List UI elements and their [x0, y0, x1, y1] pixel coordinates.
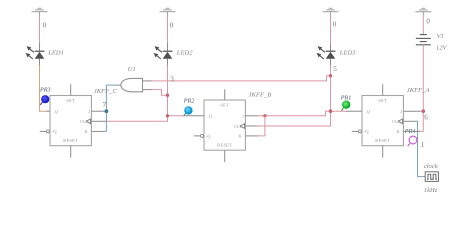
LED2 top pin: [167, 43, 169, 51]
wire net 0 to V1: [422, 14, 424, 35]
wire net 5: junction to Q_A pin: [331, 110, 348, 112]
node net3 junction U1 input: [166, 94, 169, 97]
wire net 7 (U1 out to J,K of JKFF_C): [103, 85, 117, 111]
svg-text:1: 1: [421, 141, 425, 149]
svg-text:CLK: CLK: [392, 119, 402, 124]
wire net 3: U1 bottom input link: [151, 90, 167, 96]
svg-text:V1: V1: [437, 33, 444, 40]
wire net 1: clock to CLK of JKFF_A: [414, 121, 425, 176]
probe PR1: [341, 101, 350, 111]
svg-text:1kHz: 1kHz: [424, 187, 438, 194]
svg-text:JKFF_A: JKFF_A: [407, 87, 431, 94]
svg-text:0: 0: [426, 17, 430, 25]
svg-text:PR1: PR1: [340, 96, 352, 102]
svg-text:RESET: RESET: [63, 138, 78, 143]
probe PR2: [184, 106, 193, 116]
wire net 9 (Q of JKFF_C / PR3): [40, 65, 47, 111]
svg-text:SET: SET: [66, 98, 75, 103]
svg-text:J: J: [400, 109, 402, 114]
probe PR4: [408, 136, 417, 146]
wire net 6: J to K tie at JKFF_A: [419, 111, 423, 131]
node net6 junction: [422, 109, 426, 113]
svg-text:SET: SET: [378, 98, 387, 103]
wire net 5: J to K tie at JKFF_B: [256, 116, 265, 136]
clock source: [425, 172, 438, 182]
svg-text:SET: SET: [220, 103, 229, 108]
svg-text:-Q: -Q: [364, 129, 369, 134]
wire net 0 to LED3: [330, 14, 332, 44]
flip-flop U? JKFF_B: [185, 89, 258, 162]
battery V1: [416, 35, 431, 45]
svg-text:clock: clock: [424, 163, 439, 170]
LED3 top pin: [330, 43, 332, 51]
wire net 6: J_A junction: [419, 110, 423, 112]
ground (net 0) above LED1: [32, 8, 48, 14]
node net5 J/K_B junction: [263, 114, 266, 117]
node net7 junction: [105, 109, 109, 113]
svg-text:5: 5: [333, 65, 337, 73]
svg-text:J: J: [242, 114, 244, 119]
ground (net 0) above LED3: [323, 8, 339, 14]
probe PR3: [40, 95, 49, 105]
ground (net 0) above V1: [415, 8, 431, 14]
svg-text:J: J: [88, 109, 90, 114]
LED3 bottom pin: [330, 59, 332, 66]
svg-text:3: 3: [170, 75, 174, 83]
svg-text:LED2: LED2: [176, 50, 193, 57]
flip-flop U? JKFF_C: [40, 84, 107, 157]
svg-text:12V: 12V: [436, 45, 448, 52]
wire net 0 to LED1: [39, 14, 41, 44]
svg-text:CLK: CLK: [234, 124, 244, 129]
wire net 5: junction down to CLK of JKFF_B: [256, 111, 331, 126]
wire net 0 to LED2: [167, 14, 169, 44]
wire net 5: LED3 down to Q of JKFF_A: [330, 65, 332, 111]
LED1 bottom pin: [39, 59, 41, 66]
ground (net 0) above LED2: [160, 8, 176, 14]
svg-text:0: 0: [170, 22, 174, 30]
svg-text:6: 6: [424, 114, 428, 122]
U1 output pin: [116, 84, 122, 86]
svg-text:7: 7: [103, 101, 107, 109]
svg-text:0: 0: [333, 21, 337, 29]
LED1: [26, 46, 45, 59]
svg-text:PR3: PR3: [39, 87, 51, 93]
wire net 5: U1 top input to LED3 net: [151, 76, 330, 81]
svg-text:JKFF_B: JKFF_B: [249, 92, 272, 99]
node net5 main junction: [329, 109, 333, 113]
svg-text:U1: U1: [128, 66, 136, 73]
LED2 bottom pin: [167, 59, 169, 66]
svg-text:0: 0: [43, 22, 47, 30]
svg-text:-Q: -Q: [52, 129, 57, 134]
wire net 3: to Q of JKFF_B: [168, 115, 187, 117]
LED1 top pin: [39, 43, 41, 51]
svg-text:PR2: PR2: [183, 99, 195, 105]
svg-text:-Q: -Q: [206, 134, 211, 139]
svg-text:LED1: LED1: [47, 50, 64, 57]
node net5 junction at U1 line: [329, 74, 332, 77]
wire net 5: Q_A junction to J/K of JKFF_B: [258, 111, 331, 116]
wire net 7 J to K tie: [103, 111, 106, 131]
svg-text:RESET: RESET: [217, 142, 232, 147]
flip-flop U? JKFF_A: [346, 84, 420, 157]
svg-text:CLK: CLK: [80, 119, 90, 124]
wire net 6 (V1 to J/K of JKFF_A): [422, 45, 424, 111]
LED2: [154, 46, 173, 59]
wire net 3: down and to CLK of JKFF_C: [106, 116, 168, 122]
svg-text:RESET: RESET: [375, 138, 390, 143]
svg-text:LED3: LED3: [339, 50, 356, 57]
op of counter: AND gate U1: [121, 78, 143, 91]
LED3: [317, 46, 336, 59]
wire net 3: LED2 down through junctions: [167, 65, 169, 116]
svg-text:JKFF_C: JKFF_C: [94, 88, 118, 95]
node net3 junction Q_B: [166, 114, 169, 117]
U1 input pins: [143, 80, 153, 82]
